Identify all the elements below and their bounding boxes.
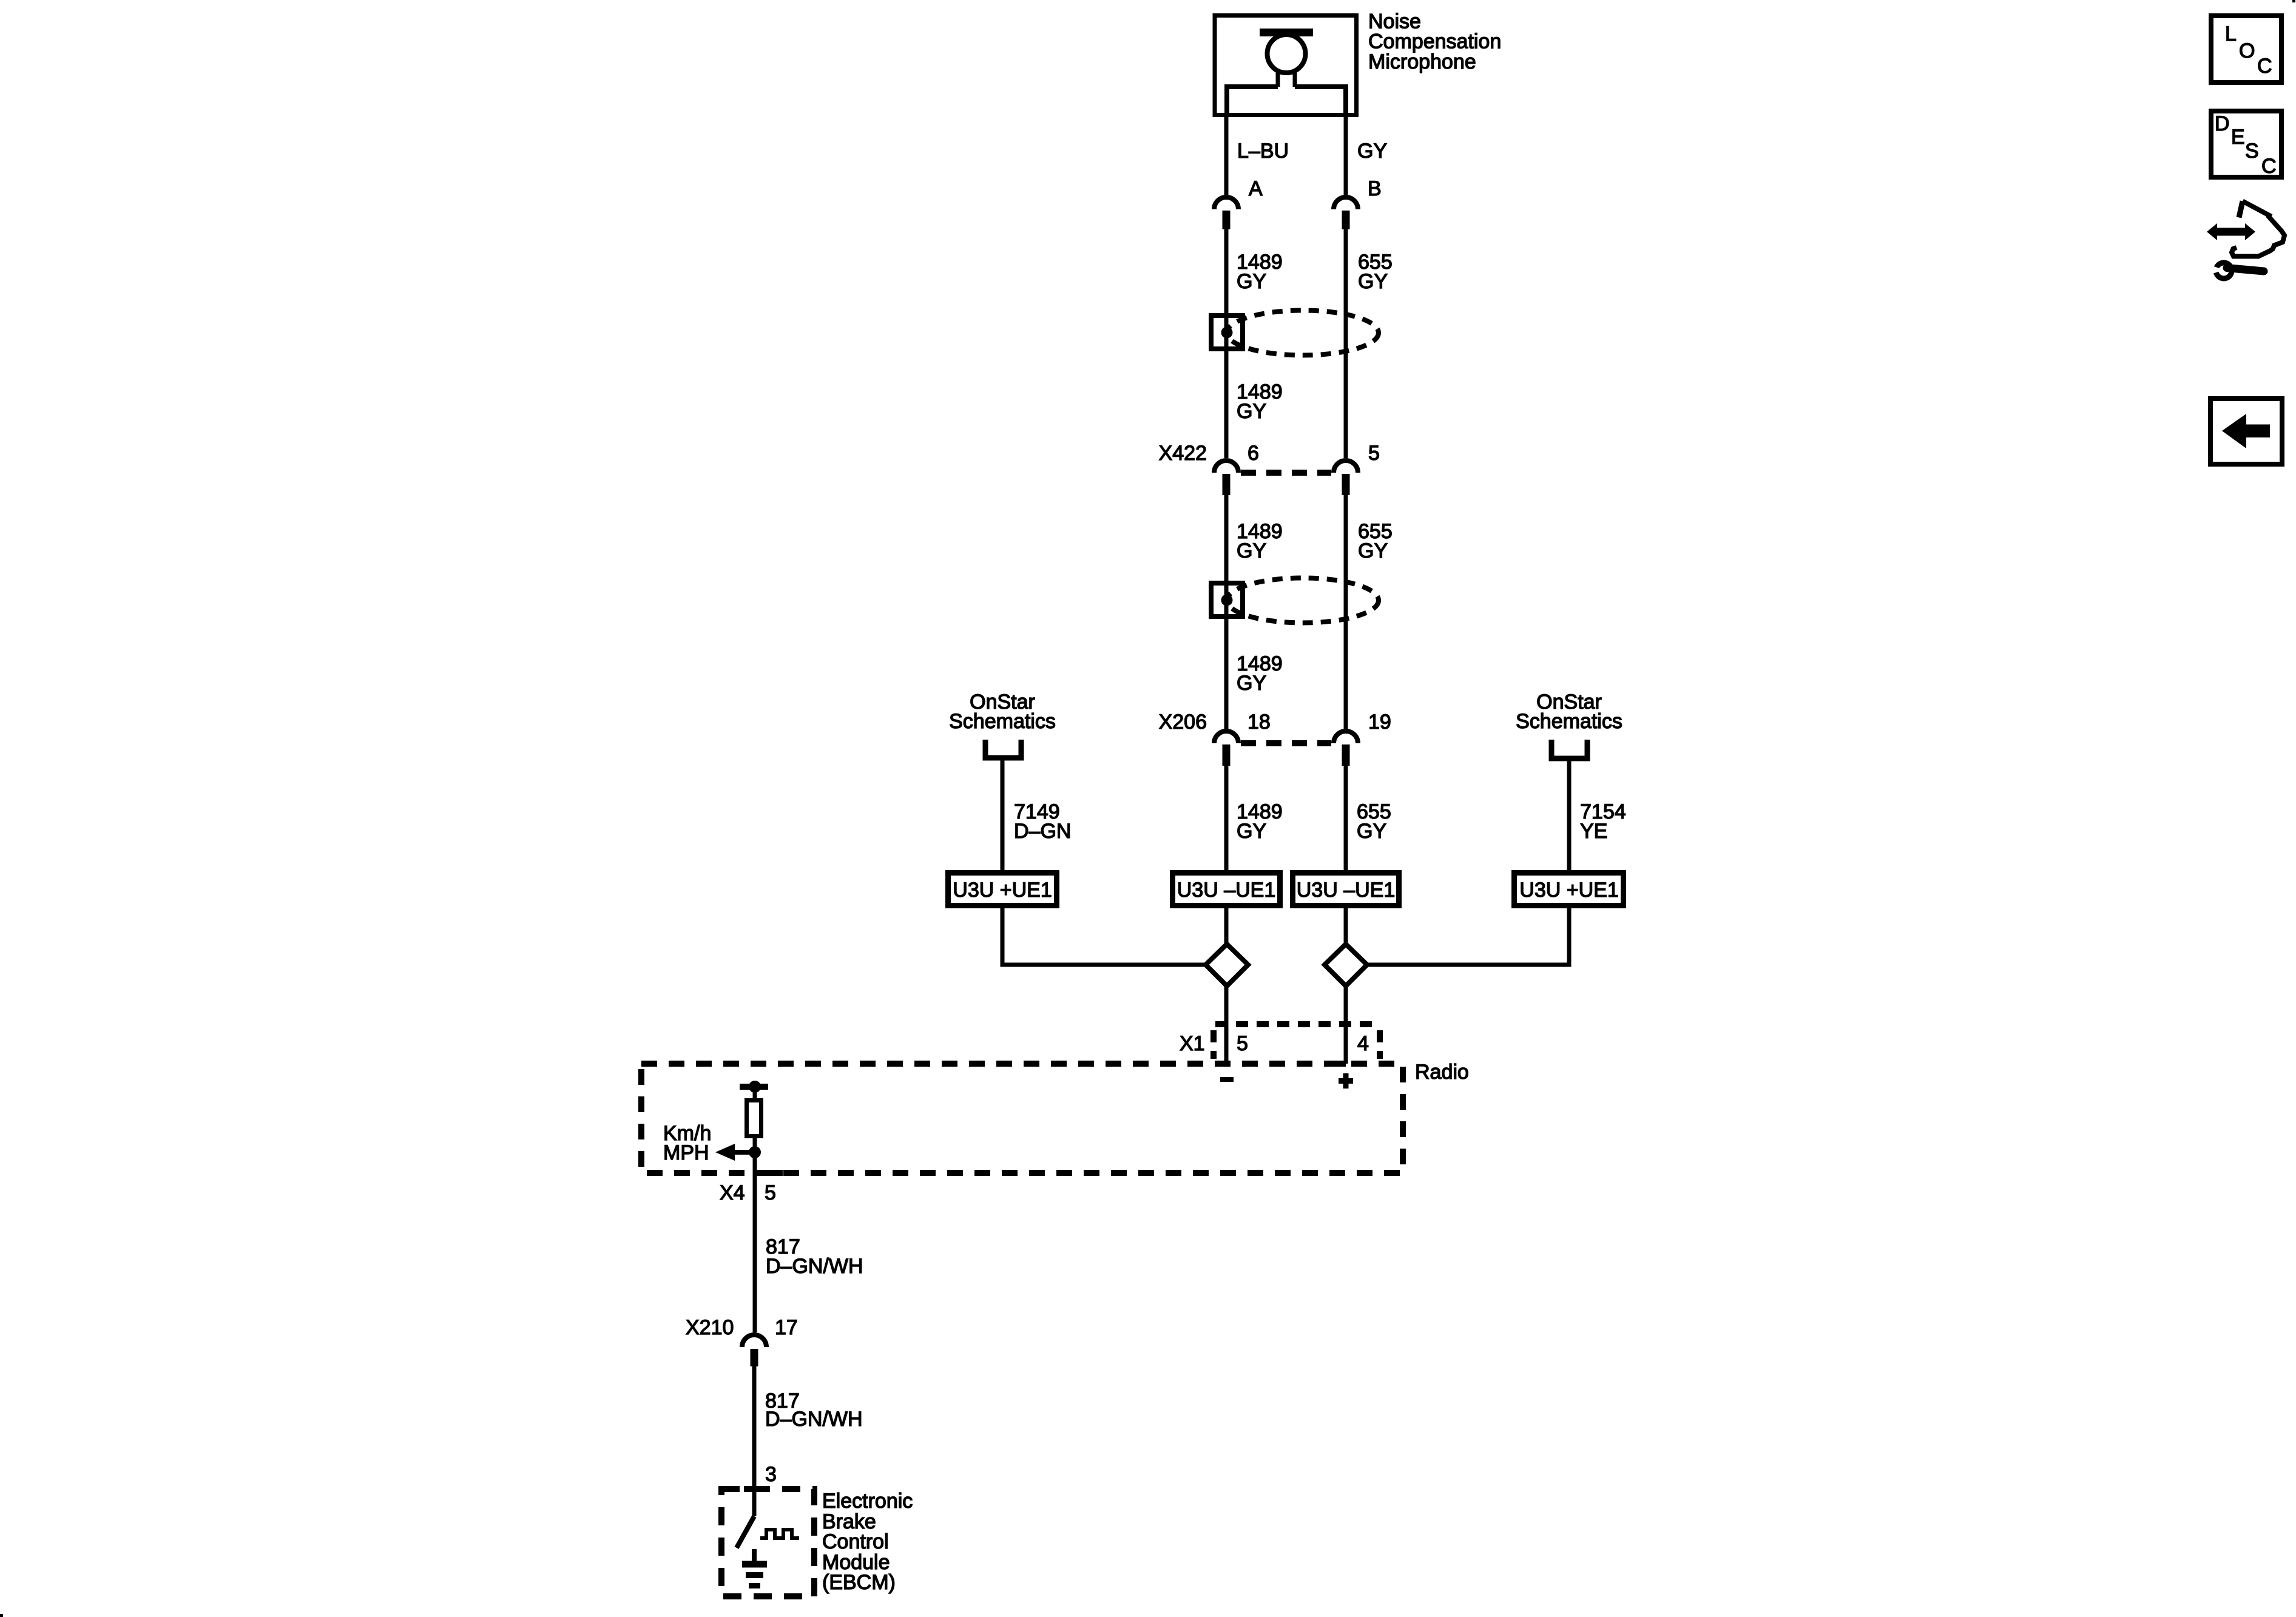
wire mid-right U3U to diamond	[1344, 908, 1348, 945]
wire mid-left U3U to diamond	[1224, 908, 1229, 945]
svg-text:GY: GY	[1237, 820, 1266, 843]
svg-text:D–GN: D–GN	[1014, 820, 1071, 843]
svg-text:3: 3	[765, 1463, 777, 1486]
label OnStar Schematics left	[949, 690, 1056, 733]
label OnStar Schematics right	[1516, 690, 1622, 733]
label 655 GY	[1357, 800, 1391, 843]
LOC legend box	[2211, 16, 2281, 83]
wire 1489 GY segment to splice S1	[1224, 229, 1229, 458]
wire 1489 GY to U3U	[1224, 766, 1229, 870]
off-page symbol right	[1551, 740, 1587, 758]
connector X422 dashed body	[1241, 470, 1331, 476]
label 7149 D-GN	[1014, 800, 1071, 843]
wire mic pin A down	[1224, 115, 1229, 195]
svg-text:5: 5	[1368, 442, 1380, 465]
label 655 GY	[1358, 520, 1393, 562]
svg-text:D: D	[2215, 112, 2230, 135]
net box U3U -UE1 mid-right	[1293, 873, 1399, 906]
splice S2	[1211, 583, 1243, 616]
wire into switch	[752, 1489, 757, 1516]
svg-text:O: O	[2239, 39, 2255, 62]
svg-text:L–BU: L–BU	[1237, 140, 1289, 163]
minus terminal	[1220, 1077, 1234, 1082]
junction dot	[749, 1146, 761, 1158]
connector X206 pin 19	[1334, 731, 1358, 766]
resistor R internal	[747, 1087, 761, 1136]
connector pin A	[1214, 197, 1238, 229]
svg-text:18: 18	[1248, 711, 1271, 734]
svg-text:GY: GY	[1358, 270, 1388, 293]
svg-text:5: 5	[765, 1181, 776, 1204]
diagnostic icon: car outline	[2232, 201, 2284, 257]
wire 817 D-GN/WH to EBCM	[752, 1366, 757, 1489]
wire diamond right down to radio	[1344, 986, 1348, 1064]
svg-text:GY: GY	[1357, 820, 1386, 843]
net box U3U -UE1 mid-left	[1173, 873, 1280, 906]
svg-text:GY: GY	[1237, 400, 1266, 423]
diagnostic icon: wrench	[2207, 263, 2264, 279]
svg-text:Schematics: Schematics	[1516, 710, 1622, 733]
label Km/h MPH	[663, 1122, 711, 1164]
internal node bar	[740, 1084, 768, 1090]
back arrow box	[2210, 399, 2282, 464]
label: Noise Compensation Microphone	[1368, 10, 1501, 74]
connector X206 pin 18	[1214, 731, 1238, 766]
svg-text:GY: GY	[1237, 270, 1266, 293]
wire mic pin B down	[1344, 115, 1348, 195]
svg-text:Electronic: Electronic	[822, 1490, 913, 1513]
svg-text:19: 19	[1368, 711, 1391, 734]
microphone symbol	[1227, 29, 1346, 117]
switch blade	[737, 1516, 754, 1548]
connector X210 pin 17	[742, 1335, 766, 1366]
svg-text:Control: Control	[822, 1530, 889, 1553]
net box U3U +UE1 left	[948, 873, 1057, 906]
DESC legend box	[2211, 111, 2281, 178]
label 817 D-GN/WH	[765, 1389, 863, 1431]
svg-text:U3U +UE1: U3U +UE1	[1519, 879, 1618, 902]
svg-text:Schematics: Schematics	[949, 710, 1056, 733]
page mark top right	[2292, 0, 2295, 2]
ground symbol	[742, 1564, 767, 1586]
label 817 D-GN/WH	[766, 1235, 863, 1278]
signal arrow Km/h MPH	[715, 1144, 755, 1161]
label 1489 GY	[1237, 652, 1283, 695]
svg-text:YE: YE	[1580, 820, 1607, 843]
svg-text:17: 17	[775, 1316, 798, 1339]
wire 655 GY segment to X206	[1344, 495, 1348, 729]
svg-text:GY: GY	[1358, 539, 1388, 562]
svg-text:X4: X4	[720, 1181, 745, 1204]
svg-text:A: A	[1249, 177, 1263, 200]
svg-text:6: 6	[1248, 442, 1259, 465]
svg-text:Microphone: Microphone	[1368, 50, 1476, 73]
svg-text:D–GN/WH: D–GN/WH	[765, 1408, 863, 1431]
junction diamond right	[1325, 944, 1367, 986]
svg-text:GY: GY	[1237, 539, 1266, 562]
wire left U3U down and across	[1002, 908, 1207, 965]
label 1489 GY	[1237, 380, 1283, 423]
connector X206 dashed body	[1241, 740, 1331, 746]
svg-text:(EBCM): (EBCM)	[822, 1571, 896, 1594]
wire 1489 GY segment to splice S2	[1224, 495, 1229, 729]
wire to ground	[752, 1549, 757, 1562]
splice S1	[1211, 316, 1243, 349]
diagnostic icon: double arrow	[2207, 223, 2255, 240]
svg-text:C: C	[2261, 155, 2277, 178]
connector X1 pin 4 tick	[1332, 1061, 1346, 1067]
wire diamond left down to radio	[1224, 986, 1229, 1067]
junction dot on bar	[749, 1081, 761, 1093]
svg-text:4: 4	[1357, 1032, 1369, 1055]
svg-text:Compensation: Compensation	[1368, 30, 1501, 53]
off-page symbol left	[985, 740, 1021, 758]
wire 7149 D-GN	[1001, 760, 1005, 870]
svg-text:D–GN/WH: D–GN/WH	[766, 1255, 863, 1278]
wire 7154 YE	[1567, 761, 1572, 870]
svg-text:X422: X422	[1159, 442, 1207, 465]
PWM signal symbol	[760, 1530, 799, 1538]
svg-text:GY: GY	[1357, 140, 1387, 163]
svg-text:GY: GY	[1237, 672, 1266, 695]
svg-text:B: B	[1368, 177, 1382, 200]
svg-text:5: 5	[1237, 1032, 1248, 1055]
svg-text:C: C	[2257, 55, 2272, 78]
svg-text:X1: X1	[1180, 1032, 1205, 1055]
twisted pair ellipse 2	[1227, 578, 1379, 623]
wire below resistor	[753, 1136, 757, 1332]
svg-text:L: L	[2225, 22, 2237, 46]
wire 655 GY to U3U	[1344, 766, 1348, 870]
svg-text:X206: X206	[1159, 711, 1207, 734]
connector X422 pin 5	[1334, 461, 1358, 495]
svg-text:U3U –UE1: U3U –UE1	[1177, 879, 1276, 902]
svg-text:Radio: Radio	[1415, 1061, 1469, 1084]
connector X1 pin 5 tick	[1215, 1021, 1226, 1027]
connector X1 dashed outline	[1214, 1024, 1380, 1059]
label 1489 GY	[1237, 800, 1283, 843]
twisted pair ellipse 1	[1227, 311, 1379, 356]
EBCM pin 3 tick	[744, 1486, 768, 1492]
svg-text:MPH: MPH	[663, 1141, 709, 1164]
plus terminal	[1339, 1073, 1353, 1089]
junction diamond left	[1206, 944, 1248, 986]
label Electronic Brake Control Module (EBCM)	[822, 1490, 913, 1594]
svg-text:E: E	[2231, 126, 2245, 149]
label 7154 YE	[1580, 800, 1626, 843]
svg-text:S: S	[2245, 140, 2259, 163]
noise compensation microphone box	[1215, 16, 1357, 115]
connector X422 pin 6	[1214, 461, 1238, 495]
radio dashed box	[641, 1064, 1403, 1173]
net box U3U +UE1 right	[1514, 873, 1624, 906]
label 655 GY	[1358, 251, 1393, 293]
page mark bottom left	[0, 1614, 3, 1617]
svg-text:U3U +UE1: U3U +UE1	[953, 879, 1052, 902]
svg-text:X210: X210	[686, 1316, 734, 1339]
label 1489 GY	[1237, 520, 1283, 562]
wire 655 GY segment to X422	[1344, 229, 1348, 458]
connector X4 tick	[755, 1170, 783, 1176]
connector pin B	[1334, 197, 1358, 229]
wire right U3U down and across	[1365, 908, 1569, 965]
label 1489 GY	[1237, 251, 1283, 293]
EBCM dashed box	[721, 1489, 814, 1596]
svg-text:U3U –UE1: U3U –UE1	[1297, 879, 1396, 902]
